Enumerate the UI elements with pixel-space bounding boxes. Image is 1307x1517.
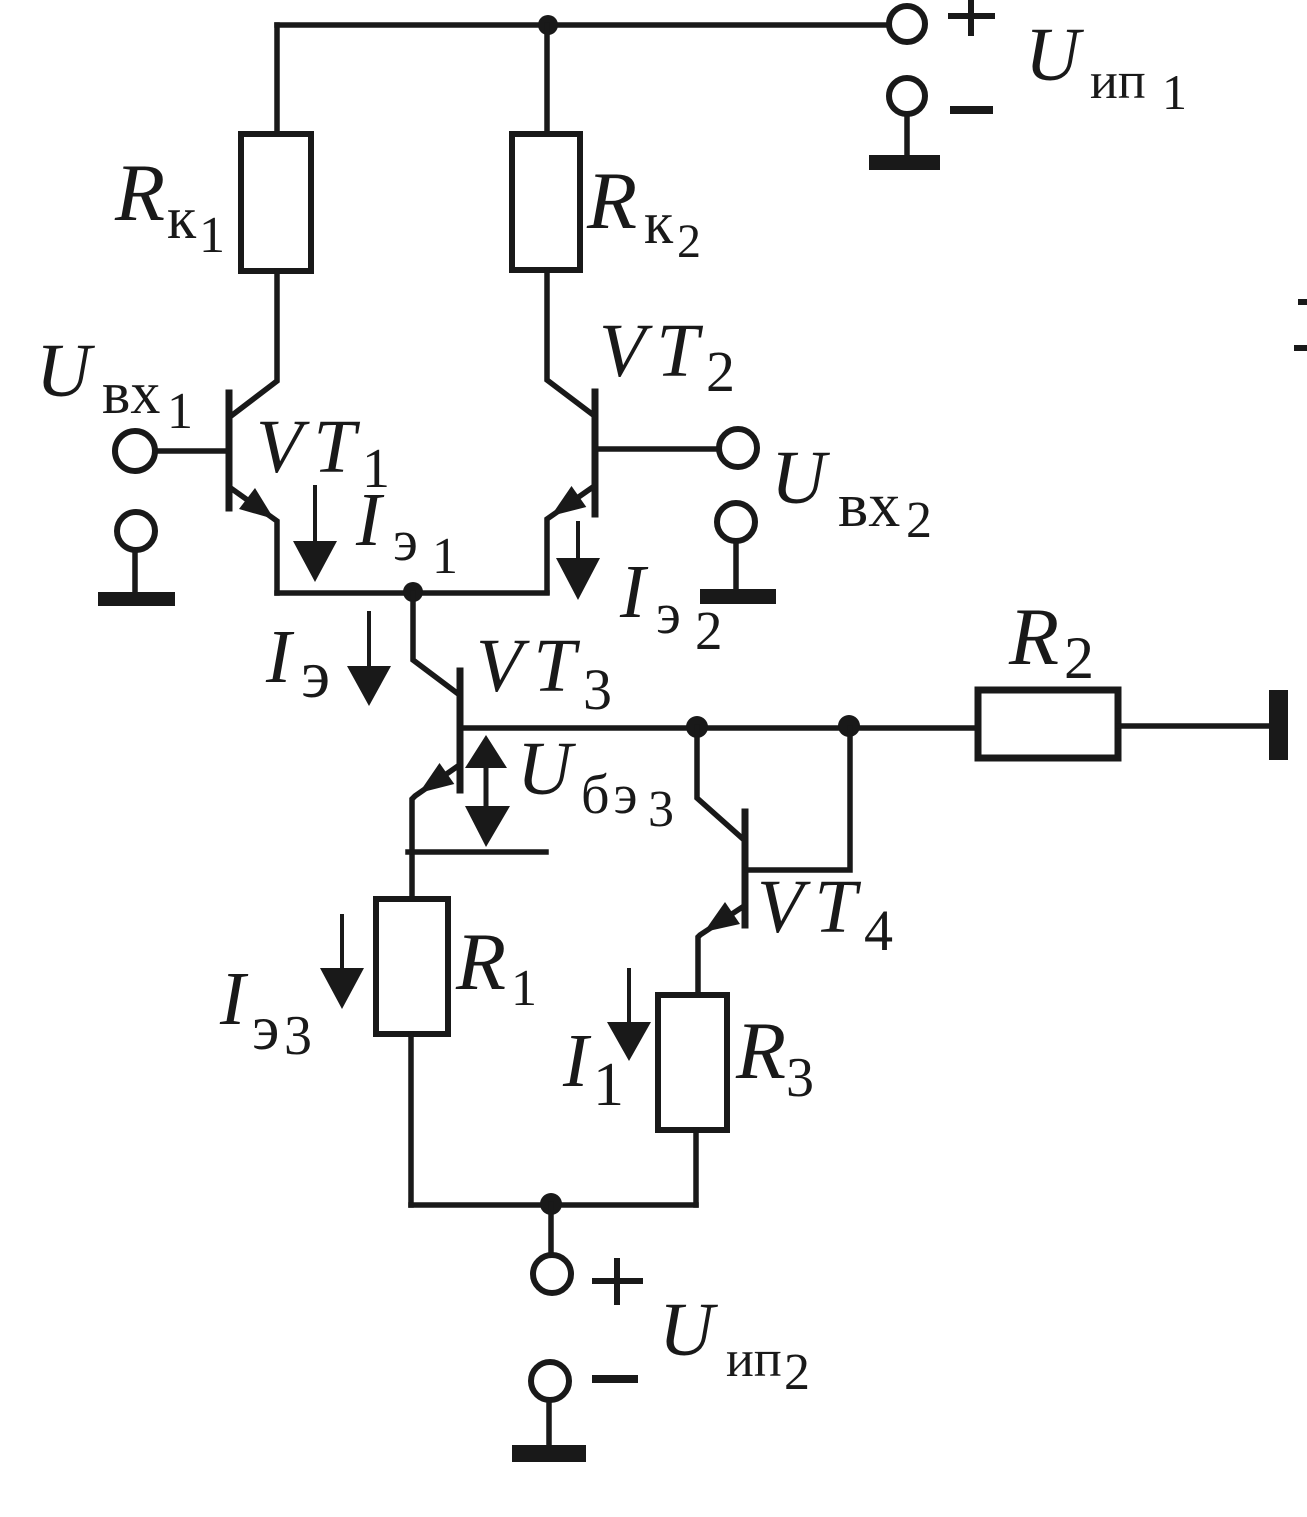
node emitter rail junction bbox=[403, 582, 423, 602]
terminal Uип1 plus circle bbox=[889, 6, 925, 42]
resistor Rк1 bbox=[241, 134, 311, 271]
label Uвх1 bbox=[36, 329, 193, 440]
wire Rk1 to VT1 collector bbox=[231, 271, 277, 416]
svg-text:3: 3 bbox=[583, 657, 612, 722]
svg-text:3: 3 bbox=[786, 1047, 814, 1109]
svg-text:U: U bbox=[771, 436, 830, 520]
minus sign Uип2 bbox=[596, 1375, 634, 1383]
transistor VT3 emitter with arrow bbox=[412, 766, 458, 899]
wire junction to VT3 collector bbox=[413, 593, 457, 693]
label Iэ1 bbox=[355, 478, 458, 585]
transistor VT2 emitter with arrow bbox=[547, 487, 593, 592]
svg-text:VT: VT bbox=[256, 405, 367, 489]
svg-text:R: R bbox=[114, 147, 165, 238]
wire VT4 base lead to junction 2 bbox=[747, 728, 850, 870]
resistor Rк2 bbox=[512, 134, 580, 270]
terminal output bar bbox=[1269, 690, 1288, 760]
label Uбэ3 bbox=[517, 727, 674, 838]
svg-text:1: 1 bbox=[199, 207, 225, 264]
svg-text:вх: вх bbox=[838, 469, 900, 540]
svg-text:э: э bbox=[393, 508, 418, 573]
svg-text:I: I bbox=[355, 478, 385, 562]
transistor VT4 emitter with arrow bbox=[698, 906, 744, 995]
svg-text:2: 2 bbox=[906, 492, 932, 549]
svg-text:VT: VT bbox=[599, 309, 710, 393]
label VT3 bbox=[476, 624, 612, 722]
node base line junction 2 bbox=[838, 715, 860, 737]
wire top supply rail bbox=[277, 22, 889, 28]
svg-text:1: 1 bbox=[432, 528, 458, 585]
wire R3 bottom lead bbox=[693, 1130, 699, 1205]
svg-text:1: 1 bbox=[593, 1051, 624, 1119]
arrow Uбэ3 double-headed bbox=[484, 760, 489, 815]
wire stem Uип2 to ground bbox=[546, 1400, 552, 1443]
arrow current Iэ bbox=[367, 613, 371, 666]
node bottom rail junction bbox=[540, 1193, 562, 1215]
ground top right bbox=[869, 155, 940, 170]
terminal Uип1 minus circle bbox=[889, 78, 925, 114]
resistor R2 bbox=[978, 690, 1118, 758]
svg-text:бэ: бэ bbox=[581, 764, 642, 826]
svg-text:2: 2 bbox=[1064, 625, 1094, 691]
label Rк2 bbox=[586, 155, 701, 268]
terminal Uип2 minus circle bbox=[531, 1362, 569, 1400]
transistor VT3 base bar bbox=[457, 671, 464, 790]
label Uип2 bbox=[659, 1288, 810, 1401]
minus sign Uип1 bbox=[954, 106, 989, 114]
node base line junction 1 bbox=[686, 716, 708, 738]
svg-text:1: 1 bbox=[167, 383, 193, 440]
node top rail junction bbox=[538, 15, 558, 35]
label Iэ3 bbox=[219, 957, 312, 1067]
wire R2 to output terminal bbox=[1118, 723, 1269, 729]
ground at input 1 bbox=[117, 512, 155, 550]
terminal Uип2 plus circle bbox=[533, 1255, 571, 1293]
svg-text:U: U bbox=[517, 727, 576, 811]
arrow current Iэ2 bbox=[576, 523, 580, 558]
terminal Uвх2 input circle bbox=[719, 429, 757, 467]
label Rк1 bbox=[114, 147, 225, 264]
arrow current Iэ3 bbox=[340, 916, 344, 968]
label R2 bbox=[1008, 591, 1094, 691]
transistor VT4 base bar bbox=[742, 812, 749, 925]
label R1 bbox=[455, 916, 537, 1017]
resistor R1 bbox=[376, 899, 448, 1034]
svg-text:2: 2 bbox=[706, 339, 735, 404]
wire Rk2 to VT2 collector bbox=[547, 270, 592, 414]
label VT4 bbox=[757, 865, 893, 963]
wire stem Uип1 to ground bbox=[904, 114, 910, 154]
label VT1 bbox=[256, 405, 390, 500]
svg-text:R: R bbox=[586, 155, 637, 246]
svg-text:I: I bbox=[619, 550, 649, 634]
svg-text:3: 3 bbox=[284, 1005, 312, 1067]
wire Rk2 top lead bbox=[544, 25, 550, 134]
svg-text:ип: ип bbox=[726, 1331, 782, 1388]
svg-text:э: э bbox=[301, 636, 330, 712]
svg-text:к: к bbox=[167, 185, 197, 251]
wire bottom rail bbox=[411, 1202, 696, 1208]
svg-text:I: I bbox=[562, 1019, 592, 1103]
wire Uбэ3 emitter reference line bbox=[408, 849, 546, 855]
svg-text:2: 2 bbox=[695, 600, 723, 661]
resistor R3 bbox=[658, 995, 727, 1130]
svg-text:U: U bbox=[1025, 13, 1084, 97]
svg-text:2: 2 bbox=[784, 1344, 810, 1401]
wire VT3 base line to R2 bbox=[462, 725, 978, 731]
svg-text:3: 3 bbox=[648, 781, 674, 838]
svg-text:э: э bbox=[252, 992, 279, 1063]
ground at input 2 bbox=[717, 503, 755, 541]
svg-text:I: I bbox=[265, 615, 295, 699]
edge mark right 2 bbox=[1297, 345, 1307, 351]
svg-text:вх: вх bbox=[102, 360, 160, 426]
label Uвх2 bbox=[771, 436, 932, 549]
arrow current Iэ1 bbox=[313, 487, 317, 541]
wire R1 bottom lead bbox=[408, 1034, 414, 1205]
svg-text:VT: VT bbox=[757, 865, 868, 949]
label I1 bbox=[562, 1019, 624, 1119]
svg-text:U: U bbox=[659, 1288, 718, 1372]
wire VT4 collector from junction 1 bbox=[697, 727, 743, 839]
svg-text:э: э bbox=[656, 581, 681, 646]
svg-text:R: R bbox=[1008, 591, 1059, 682]
wire VT1 base lead bbox=[156, 448, 226, 454]
wire stem to Uип2 plus terminal bbox=[548, 1204, 554, 1254]
wire emitter rail VT1-VT2 bbox=[277, 590, 547, 596]
plus sign Uип1 bbox=[951, 3, 992, 33]
transistor VT2 base bar bbox=[592, 392, 599, 514]
terminal Uвх1 input circle bbox=[115, 431, 155, 471]
label R3 bbox=[735, 1005, 814, 1109]
wire Rk1 top lead bbox=[274, 25, 280, 134]
label Uип1 bbox=[1025, 13, 1187, 120]
svg-text:ип: ип bbox=[1090, 53, 1146, 110]
svg-text:I: I bbox=[219, 957, 249, 1041]
svg-text:к: к bbox=[644, 190, 674, 256]
svg-text:1: 1 bbox=[511, 960, 537, 1017]
svg-text:1: 1 bbox=[1162, 64, 1187, 120]
label Iэ2 bbox=[619, 550, 723, 661]
label Iэ bbox=[265, 615, 330, 712]
label VT2 bbox=[599, 309, 735, 404]
svg-text:2: 2 bbox=[677, 215, 701, 268]
ground bottom bbox=[512, 1445, 586, 1462]
svg-text:VT: VT bbox=[476, 624, 587, 708]
transistor VT1 emitter with arrow bbox=[232, 489, 277, 593]
edge mark right 1 bbox=[1301, 299, 1307, 305]
svg-text:R: R bbox=[735, 1005, 786, 1096]
wire VT2 base lead bbox=[599, 446, 719, 452]
svg-text:U: U bbox=[36, 329, 95, 413]
arrow current I1 bbox=[627, 970, 631, 1022]
svg-text:4: 4 bbox=[864, 898, 893, 963]
transistor VT1 base bar bbox=[226, 393, 233, 508]
plus sign Uип2 bbox=[595, 1261, 640, 1302]
svg-text:R: R bbox=[455, 916, 506, 1007]
